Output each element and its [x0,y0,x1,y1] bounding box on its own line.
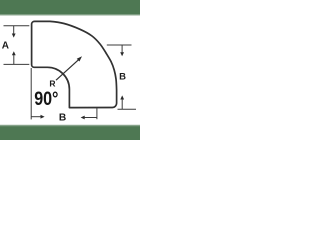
radius leader line with arrowhead [56,60,79,80]
dimension B right: down arrow [121,45,123,53]
dimension A: down arrow [13,26,15,34]
dimension B right: top extension line [107,44,132,46]
dimension B bottom: extension line [96,108,98,120]
svg-text:B: B [59,113,66,124]
elbow body outline [32,21,117,107]
svg-text:R: R [49,79,55,89]
svg-text:B: B [119,71,126,82]
svg-text:90°: 90° [34,89,58,110]
dimension A: bottom extension line [4,63,30,65]
dimension B right: bottom extension line [118,108,137,110]
svg-text:A: A [2,40,9,51]
white background [0,0,140,140]
dimension B bottom: left extension line [30,68,32,119]
dimension B bottom: right-pointing arrow at left [31,116,41,118]
top green banner [0,0,140,14]
dimension A: up arrow [12,51,16,55]
dimension B right: up arrow [120,95,124,99]
dimension B bottom: left arrow [81,116,85,120]
bottom green banner [0,124,140,126]
dimension A: top extension line [4,25,30,27]
